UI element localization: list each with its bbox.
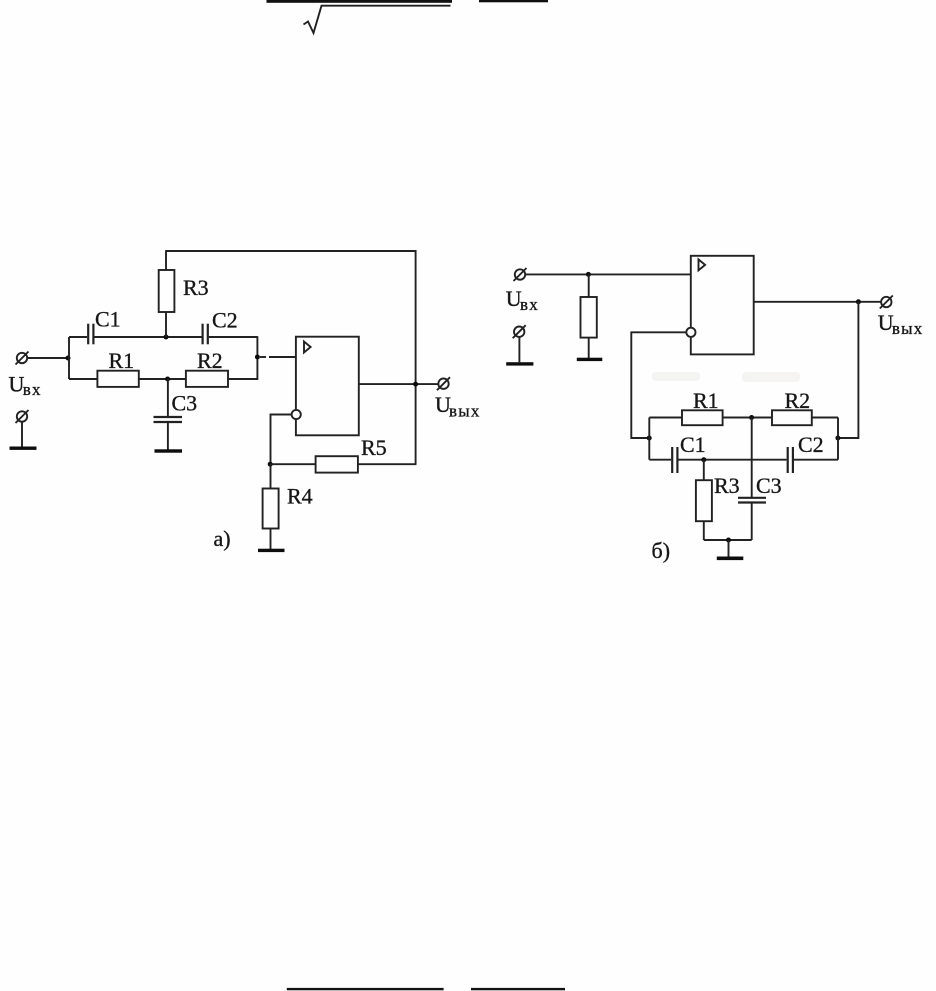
wire left rail (648, 418, 650, 460)
inverting input circle U2 (686, 328, 695, 337)
resistor R2 (772, 410, 812, 425)
wire feedback rail down (415, 384, 417, 464)
wire C-row left (649, 459, 671, 461)
node L junction dot (C1/C2/R3) (701, 457, 706, 462)
node H junction dot (output) (856, 299, 861, 304)
wire R2 to right rail (812, 417, 838, 419)
output terminal Uvyx (880, 296, 893, 309)
svg-text:R1: R1 (109, 348, 135, 373)
node G junction dot (586, 272, 591, 277)
output terminal Uvyx (437, 377, 450, 390)
node B junction dot (R3/C1/C2) (164, 335, 169, 340)
ground under C3 (155, 449, 183, 452)
capacitor C1 (672, 447, 677, 473)
wire node M to ground (728, 540, 730, 557)
svg-text:C3: C3 (756, 473, 782, 498)
resistor R1 (97, 371, 138, 387)
op-amp U1 (296, 337, 359, 436)
capacitor C2 (788, 447, 793, 473)
wire resistor to ground (588, 338, 590, 358)
svg-text:R4: R4 (287, 484, 313, 509)
wire left rail (68, 337, 70, 379)
wire terminal to ground (21, 422, 23, 447)
wire node G to resistor (588, 274, 590, 297)
dashed wire node C to op-amp input (260, 356, 296, 358)
wire input to node A (28, 357, 70, 359)
node F junction dot (output) (413, 382, 418, 387)
ground terminal (lower input) (513, 325, 526, 338)
input terminal Uvx (circle with slash) (514, 268, 527, 281)
wire C3 to ground (167, 423, 169, 450)
wire C-row (left segment) (69, 336, 87, 338)
wire R1 to R2 (723, 417, 772, 419)
wire R5 to feedback rail (358, 463, 417, 465)
wire R1 to R2 (139, 378, 186, 380)
ground (717, 557, 744, 561)
svg-text:C2: C2 (212, 308, 238, 333)
wire R3 to bottom rail (703, 521, 705, 540)
ground (10, 447, 37, 450)
svg-text:C2: C2 (798, 432, 824, 457)
node M junction dot (ground tap) (726, 538, 731, 543)
wire R-row rail to R1 (69, 378, 97, 380)
svg-text:R5: R5 (361, 435, 387, 460)
capacitor C2 (203, 324, 208, 345)
wire inverting input to node E (271, 415, 292, 465)
svg-text:R3: R3 (714, 473, 740, 498)
resistor R5 (316, 456, 358, 472)
wire op-amp output (359, 383, 439, 385)
wire node B to R3 (165, 312, 167, 337)
node J junction dot (left rail) (647, 436, 652, 441)
label Uvyx (878, 310, 924, 338)
node C junction dot (255, 355, 260, 360)
resistor (input shunt) (581, 297, 597, 338)
wire bottom rail (704, 539, 752, 541)
svg-text:вх: вх (520, 295, 539, 314)
wire node D to C3 (167, 379, 169, 416)
svg-text:R2: R2 (785, 388, 811, 413)
svg-text:C1: C1 (95, 307, 121, 332)
capacitor C3 (738, 498, 766, 503)
svg-text:вых: вых (449, 401, 481, 420)
wire R4 to ground (270, 529, 272, 550)
wire terminal to ground (518, 337, 520, 362)
fraction bar (top-left formula) (267, 0, 453, 3)
node A junction dot (66, 356, 71, 361)
wire C2 to right corner (209, 336, 258, 338)
node K junction dot (R1/R2/C3) (749, 415, 754, 420)
svg-text:б): б) (652, 538, 671, 563)
wire op-amp output (754, 301, 881, 303)
ground terminal (lower input) (16, 410, 29, 423)
wire C3 to bottom rail (751, 504, 753, 541)
wire node E to R4 (270, 464, 272, 488)
svg-text:R2: R2 (197, 348, 223, 373)
wire right rail (837, 418, 839, 460)
inverting input circle U1 (292, 410, 301, 419)
wire inverting input to left rail (631, 332, 686, 438)
op-amp U2 (691, 256, 754, 355)
resistor R3 (159, 270, 175, 312)
resistor R2 (186, 371, 228, 387)
ground under resistor (577, 358, 603, 361)
wire C1 to node L (678, 459, 786, 461)
wire node L to R3 (703, 460, 705, 481)
label Uvx (506, 286, 539, 314)
resistor R1 (682, 410, 723, 425)
wire R3 to top wire (165, 250, 167, 270)
scan smudge artifacts (652, 372, 800, 382)
wire output down to network (838, 302, 858, 438)
svg-text:R1: R1 (693, 388, 719, 413)
svg-text:C1: C1 (680, 432, 706, 457)
svg-text:вх: вх (23, 380, 42, 399)
capacitor C3 (154, 417, 183, 422)
resistor R3 (696, 480, 712, 521)
svg-text:R3: R3 (183, 275, 209, 300)
wire top feedback (166, 251, 416, 384)
wire input to op-amp (526, 273, 691, 275)
svg-text:вых: вых (892, 319, 924, 338)
node E junction dot (R4/R5) (268, 462, 273, 467)
resistor R4 (263, 489, 279, 529)
wire R-row left (649, 417, 682, 419)
wire node K to C3 (751, 418, 753, 498)
ground (506, 362, 533, 365)
ground under R4 (258, 549, 285, 552)
wire C1 to node B (95, 336, 202, 338)
label Uvx (9, 371, 42, 399)
wire C2 to right rail (794, 459, 838, 461)
input terminal Uvx (circle with slash) (16, 352, 29, 365)
node I junction dot (right rail) (835, 436, 840, 441)
fraction bar (bottom-right formula) (471, 988, 565, 990)
capacitor C1 (88, 324, 93, 345)
radical sign (square root) (304, 6, 451, 33)
wire node E to R5 (271, 463, 316, 465)
node D junction dot (R1/R2/C3) (165, 377, 170, 382)
wire corner down to node C (256, 336, 258, 379)
label Uvyx (435, 392, 481, 420)
wire R2 to corner (228, 378, 258, 380)
fraction bar (bottom-left formula) (287, 988, 444, 990)
fraction bar (top-right formula) (479, 0, 548, 2)
svg-text:а): а) (214, 526, 231, 551)
svg-text:C3: C3 (172, 391, 198, 416)
